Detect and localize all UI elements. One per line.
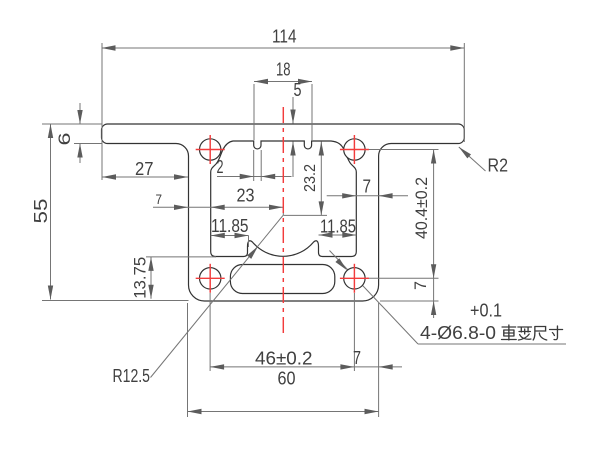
svg-text:40.4±0.2: 40.4±0.2: [412, 177, 431, 239]
leader R2: [457, 145, 508, 176]
red crosshair hole TL: [196, 135, 225, 164]
hole bottom-left: [200, 268, 221, 289]
dim right 7: [327, 177, 408, 199]
svg-text:+0.1: +0.1: [470, 301, 502, 321]
svg-text:27: 27: [135, 159, 154, 179]
dim 60: [188, 303, 379, 417]
svg-text:7: 7: [411, 281, 430, 290]
svg-text:2: 2: [217, 157, 224, 177]
svg-text:4-Ø6.8-0: 4-Ø6.8-0: [420, 323, 496, 343]
bottom slot: [230, 265, 334, 294]
dim 23.2: [283, 142, 327, 216]
leader R12.5: [113, 215, 284, 386]
svg-text:13.75: 13.75: [131, 257, 150, 299]
svg-text:7: 7: [156, 191, 163, 207]
svg-text:46±0.2: 46±0.2: [255, 349, 313, 369]
dim 40.4±0.2: [367, 150, 439, 279]
dim 5: [290, 80, 301, 177]
svg-text:23.2: 23.2: [302, 164, 319, 192]
dim 55: [31, 124, 189, 301]
hole bottom-right: [344, 268, 365, 289]
svg-text:23: 23: [237, 186, 255, 206]
svg-text:11.85: 11.85: [211, 216, 249, 236]
dim 18: [254, 60, 312, 141]
dim vertical 7 right: [380, 278, 439, 318]
red crosshair hole BL: [196, 264, 225, 293]
profile outer contour: [102, 124, 465, 301]
dim 46±0.2: [210, 293, 402, 371]
dim 13.75: [131, 257, 217, 299]
dim 11.85 right: [319, 217, 357, 238]
svg-text:7: 7: [353, 348, 361, 368]
dim 27: [102, 159, 188, 180]
svg-text:R12.5: R12.5: [113, 366, 151, 386]
hole top-left: [200, 139, 221, 160]
CJK text 重要尺寸: [502, 325, 563, 340]
red centerline: [282, 107, 284, 335]
dim 23 and left 7: [153, 186, 283, 216]
dim 114: [102, 27, 465, 181]
svg-text:114: 114: [272, 27, 297, 47]
svg-text:18: 18: [276, 60, 291, 80]
hole top-right: [344, 139, 365, 160]
profile inner cavity: [211, 141, 357, 257]
leader 4-Ø6.8 callout: [330, 251, 567, 345]
svg-text:60: 60: [278, 369, 296, 389]
dim 6: [55, 103, 102, 163]
red crosshair hole TR: [340, 135, 369, 164]
red crosshair hole BR: [340, 264, 369, 293]
svg-text:7: 7: [363, 177, 372, 197]
dim 2 (notch): [217, 150, 292, 181]
svg-text:R2: R2: [488, 156, 509, 176]
svg-text:11.85: 11.85: [320, 217, 356, 237]
svg-text:5: 5: [294, 80, 302, 100]
dim 11.85 left: [211, 216, 249, 247]
svg-text:55: 55: [31, 199, 51, 224]
svg-text:6: 6: [55, 133, 74, 146]
